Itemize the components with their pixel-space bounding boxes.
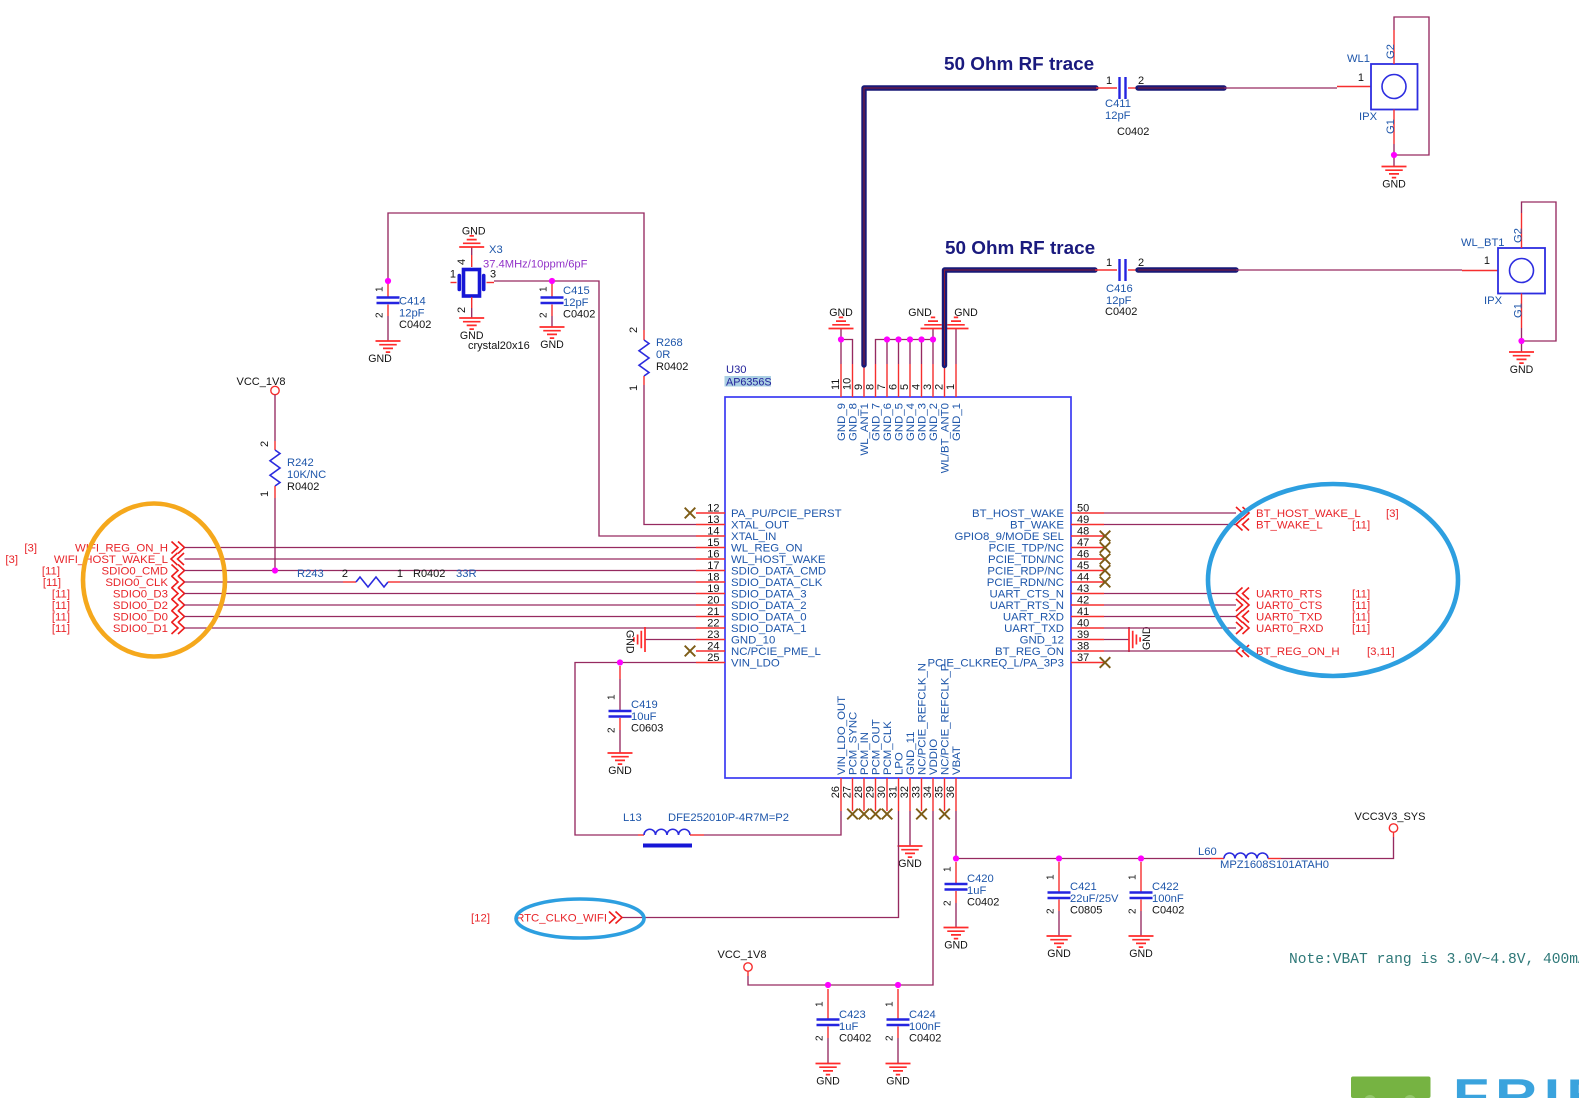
ground C422 <box>1129 936 1154 960</box>
junction crystal pin3 / C415 <box>549 278 555 284</box>
junction R242/SDIO0_CMD <box>272 567 278 573</box>
wire pin1 to GND <box>955 329 957 365</box>
svg-text:11: 11 <box>830 379 842 390</box>
svg-text:1: 1 <box>397 568 403 580</box>
svg-text:39: 39 <box>1077 629 1089 641</box>
U30 pin 31 LPO <box>888 752 906 811</box>
svg-text:1: 1 <box>1106 257 1112 269</box>
svg-text:FRIENDLY: FRIENDLY <box>1453 1070 1579 1098</box>
svg-text:29: 29 <box>865 786 877 798</box>
svg-text:GND: GND <box>368 353 392 365</box>
svg-text:PCIE_RDN/NC: PCIE_RDN/NC <box>987 577 1064 589</box>
svg-text:35: 35 <box>934 786 946 798</box>
svg-text:GND_9: GND_9 <box>836 403 848 441</box>
svg-text:2: 2 <box>1128 908 1139 914</box>
power VCC_1V8 bottom <box>718 949 767 976</box>
wire pin32 GND_11 <box>909 811 911 846</box>
no-connect pin 30 <box>882 809 893 820</box>
off-page connector SDIO0_CMD <box>42 565 185 578</box>
wire BT_WAKE_L <box>1104 524 1236 526</box>
U30 pin 32 GND_11 <box>899 732 917 811</box>
U30 pin 9 WL_ANT1 <box>853 364 871 456</box>
U30 pin 12 PA_PU/PCIE_PERST <box>696 503 842 521</box>
U30 pin 49 BT_WAKE <box>1010 514 1104 532</box>
svg-text:1uF: 1uF <box>839 1021 858 1033</box>
svg-text:C415: C415 <box>563 285 590 297</box>
junction VBAT/C420 <box>953 855 959 861</box>
capacitor C415 12pF <box>539 284 596 321</box>
capacitor C416 12pF <box>1095 257 1144 318</box>
capacitor C419 10uF <box>607 666 664 735</box>
U30 pin 47 PCIE_TDP/NC <box>989 537 1104 555</box>
ground at pin 39 <box>1129 626 1153 652</box>
svg-text:2: 2 <box>885 1035 896 1041</box>
ground below crystal X3 <box>459 318 484 342</box>
U30 pin 5 GND_4 <box>899 364 917 441</box>
svg-text:20: 20 <box>707 595 719 607</box>
U30 pin 2 WL/BT_ANT0 <box>934 364 952 473</box>
U30 pin 7 GND_6 <box>876 364 894 441</box>
wire net VDDIO <box>748 811 933 985</box>
svg-text:2: 2 <box>628 327 640 333</box>
thick RF trace after C416 <box>1138 267 1236 272</box>
wire C415 to GND <box>551 316 553 327</box>
svg-text:G1: G1 <box>1513 303 1525 318</box>
svg-text:1: 1 <box>628 385 640 391</box>
ground WL1 <box>1382 167 1407 191</box>
svg-text:5: 5 <box>899 384 911 390</box>
svg-text:1: 1 <box>607 694 618 700</box>
svg-text:SDIO0_CLK: SDIO0_CLK <box>105 577 168 589</box>
wire net XTAL_OUT <box>388 213 696 525</box>
resistor R243 33R <box>297 568 477 587</box>
logo FriendlyElec <box>1351 1070 1579 1098</box>
svg-text:4: 4 <box>911 384 923 390</box>
svg-text:IPX: IPX <box>1484 295 1503 307</box>
junction WL_BT1 G1 <box>1518 338 1524 344</box>
power VCC3V3_SYS <box>1355 811 1426 837</box>
svg-text:2: 2 <box>1138 257 1144 269</box>
svg-text:PCM_OUT: PCM_OUT <box>871 719 883 775</box>
no-connect pin 47 <box>1100 542 1111 553</box>
no-connect pin 46 <box>1100 554 1111 565</box>
svg-text:[11]: [11] <box>52 600 70 612</box>
svg-text:GND: GND <box>954 307 978 319</box>
capacitor C422 100nF <box>1128 862 1185 917</box>
svg-text:XTAL_IN: XTAL_IN <box>731 531 776 543</box>
wire BT_REG_ON_H <box>1104 650 1236 652</box>
svg-text:PCIE_RDP/NC: PCIE_RDP/NC <box>987 566 1064 578</box>
svg-text:WL/BT_ANT0: WL/BT_ANT0 <box>940 403 952 473</box>
svg-text:9: 9 <box>853 384 865 390</box>
svg-text:GND: GND <box>540 339 564 351</box>
U30 pin 28 PCM_IN <box>853 732 871 811</box>
svg-text:22uF/25V: 22uF/25V <box>1070 893 1119 905</box>
svg-text:GND: GND <box>816 1076 840 1088</box>
svg-text:31: 31 <box>888 786 900 798</box>
off-page connector UART0_RXD <box>1236 622 1370 635</box>
U30 pin 15 WL_REG_ON <box>696 537 803 555</box>
svg-text:1: 1 <box>945 384 957 390</box>
U30 pin 40 UART_TXD <box>1004 618 1104 636</box>
wire UART0_RTS <box>1104 593 1236 595</box>
ground pin 32 <box>898 846 923 870</box>
wire to WL_BT1 <box>1236 269 1462 271</box>
wire net VIN_LDO <box>575 663 696 836</box>
svg-text:SDIO0_D0: SDIO0_D0 <box>113 612 168 624</box>
junction top rail x=910 <box>907 336 913 342</box>
svg-text:G1: G1 <box>1385 119 1397 134</box>
svg-text:MPZ1608S101ATAH0: MPZ1608S101ATAH0 <box>1220 859 1329 871</box>
junction top rail x=898.5 <box>895 336 901 342</box>
junction VDDIO/C424 <box>895 982 901 988</box>
svg-text:SDIO_DATA_1: SDIO_DATA_1 <box>731 623 807 635</box>
svg-text:[11]: [11] <box>1352 623 1370 635</box>
svg-text:GND: GND <box>624 630 636 654</box>
wire GND_12 pin39 <box>1104 639 1129 641</box>
svg-text:WL_REG_ON: WL_REG_ON <box>731 543 803 555</box>
wire C414 to GND <box>387 316 389 341</box>
svg-text:22: 22 <box>707 618 719 630</box>
wire R242 to SDIO0_CMD <box>274 498 276 571</box>
ground C421 <box>1047 936 1072 960</box>
junction top rail x=887 <box>884 336 890 342</box>
svg-text:C419: C419 <box>631 699 658 711</box>
wire L13 to pin26 VIN_LDO_OUT <box>704 811 841 835</box>
off-page connector SDIO0_D3 <box>52 588 185 601</box>
svg-text:R243: R243 <box>297 568 324 580</box>
svg-text:GND: GND <box>1510 364 1534 376</box>
off-page connector SDIO0_D1 <box>52 622 185 635</box>
U30 pin 38 BT_REG_ON <box>995 641 1104 659</box>
svg-text:1: 1 <box>450 269 456 281</box>
svg-text:BT_REG_ON: BT_REG_ON <box>995 646 1064 658</box>
U30 pin 8 GND_7 <box>865 364 883 441</box>
svg-text:[11]: [11] <box>1352 612 1370 624</box>
svg-text:10K/NC: 10K/NC <box>287 469 326 481</box>
svg-text:PCIE_TDP/NC: PCIE_TDP/NC <box>989 543 1064 555</box>
U30 pin 13 XTAL_OUT <box>696 514 789 532</box>
svg-text:2: 2 <box>934 384 946 390</box>
svg-text:BT_REG_ON_H: BT_REG_ON_H <box>1256 646 1340 658</box>
U30 pin 19 SDIO_DATA_3 <box>696 583 807 601</box>
svg-text:VCC_1V8: VCC_1V8 <box>237 376 286 388</box>
U30 pin 44 PCIE_RDN/NC <box>987 572 1104 590</box>
svg-text:100nF: 100nF <box>909 1021 941 1033</box>
svg-text:45: 45 <box>1077 560 1089 572</box>
svg-text:1: 1 <box>815 1001 826 1007</box>
off-page connector WIFI_REG_ON_H <box>24 542 184 555</box>
wire SDIO0_D2 <box>185 604 697 606</box>
connector WL_BT1 IPX <box>1461 213 1545 328</box>
wire net XTAL_IN <box>494 281 696 536</box>
svg-text:49: 49 <box>1077 514 1089 526</box>
svg-text:12: 12 <box>707 503 719 515</box>
wire SDIO0_D0 <box>185 616 697 618</box>
crystal X3 37.4MHz <box>450 244 588 352</box>
no-connect pin 24 <box>685 646 696 657</box>
wire net RTC_CLKO_WIFI to pin31 LPO <box>622 811 899 918</box>
no-connect pin 44 <box>1100 577 1111 588</box>
svg-text:C0805: C0805 <box>1070 905 1102 917</box>
svg-text:GND_4: GND_4 <box>905 403 917 441</box>
svg-text:1: 1 <box>943 866 954 872</box>
svg-text:SDIO_DATA_2: SDIO_DATA_2 <box>731 600 807 612</box>
no-connect pin 12 <box>685 508 696 519</box>
svg-text:2: 2 <box>456 307 468 313</box>
svg-text:UART0_RXD: UART0_RXD <box>1256 623 1324 635</box>
U30 pin 16 WL_HOST_WAKE <box>696 549 826 567</box>
U30 pin 3 GND_2 <box>922 364 940 441</box>
svg-text:[3]: [3] <box>1386 508 1399 520</box>
U30 pin 11 GND_9 <box>830 364 848 441</box>
U30 pin 50 BT_HOST_WAKE <box>972 503 1104 521</box>
off-page connector UART0_CTS <box>1236 599 1370 612</box>
svg-text:BT_HOST_WAKE: BT_HOST_WAKE <box>972 508 1064 520</box>
svg-text:2: 2 <box>342 568 348 580</box>
thick RF trace WL_ANT1 <box>864 88 1096 365</box>
svg-text:24: 24 <box>707 641 719 653</box>
svg-text:NC/PCIE_REFCLK_N: NC/PCIE_REFCLK_N <box>917 663 929 775</box>
svg-text:19: 19 <box>707 583 719 595</box>
capacitor C424 100nF <box>885 989 942 1045</box>
svg-text:18: 18 <box>707 572 719 584</box>
svg-text:R0402: R0402 <box>413 568 445 580</box>
svg-text:21: 21 <box>707 606 719 618</box>
svg-text:GND_2: GND_2 <box>928 403 940 441</box>
U30 pin 18 SDIO_DATA_CLK <box>696 572 823 590</box>
wire UART0_RXD <box>1104 627 1236 629</box>
off-page connector SDIO0_D2 <box>52 599 185 612</box>
svg-text:23: 23 <box>707 629 719 641</box>
U30 pin 10 GND_8 <box>842 364 860 441</box>
wire C420 to GND <box>955 903 957 928</box>
svg-text:Note:VBAT rang is 3.0V~4.8V, 4: Note:VBAT rang is 3.0V~4.8V, 400mA <box>1289 952 1579 968</box>
svg-text:PA_PU/PCIE_PERST: PA_PU/PCIE_PERST <box>731 508 842 520</box>
svg-text:36: 36 <box>945 786 957 798</box>
svg-text:GND: GND <box>829 307 853 319</box>
svg-text:1: 1 <box>1106 75 1112 87</box>
svg-text:PCIE_TDN/NC: PCIE_TDN/NC <box>988 554 1064 566</box>
svg-text:30: 30 <box>876 786 888 798</box>
svg-text:[3]: [3] <box>5 554 18 566</box>
wire to WL1 <box>1224 87 1337 89</box>
off-page connector BT_REG_ON_H <box>1236 645 1395 658</box>
svg-text:GND_3: GND_3 <box>917 403 929 441</box>
svg-text:GND_7: GND_7 <box>871 403 883 441</box>
U30 pin 35 NC/PCIE_REFCLK_P <box>934 664 952 811</box>
U30 pin 22 SDIO_DATA_1 <box>696 618 807 636</box>
svg-text:C421: C421 <box>1070 881 1097 893</box>
svg-text:10uF: 10uF <box>631 711 657 723</box>
svg-text:BT_WAKE_L: BT_WAKE_L <box>1256 520 1323 532</box>
off-page connector UART0_TXD <box>1236 611 1370 624</box>
ground top pin 1 <box>944 307 979 329</box>
ground at pin 23 <box>624 627 646 654</box>
U30 pin 26 VIN_LDO_OUT <box>830 696 848 811</box>
wire C424 to GND <box>897 1038 899 1064</box>
svg-text:33R: 33R <box>456 568 477 580</box>
ground C415 <box>540 327 565 351</box>
svg-text:WL_BT1: WL_BT1 <box>1461 237 1505 249</box>
power VCC_1V8 top <box>237 376 286 395</box>
wire SDIO0_D1 <box>185 627 697 629</box>
U30 pin 27 PCM_SYNC <box>842 712 860 811</box>
svg-text:[3]: [3] <box>24 543 37 555</box>
wire WIFI_HOST_WAKE_L <box>185 558 697 560</box>
svg-text:C414: C414 <box>399 296 426 308</box>
svg-text:G2: G2 <box>1513 228 1525 243</box>
off-page connector SDIO0_CLK <box>43 576 185 589</box>
thick RF trace WL/BT_ANT0 <box>945 270 1096 366</box>
svg-text:XTAL_OUT: XTAL_OUT <box>731 520 789 532</box>
resistor R242 10K/NC <box>259 441 326 498</box>
wire pin11 to GND rail <box>840 329 842 365</box>
svg-text:[11]: [11] <box>1352 520 1370 532</box>
U30 pin 6 GND_5 <box>888 364 906 441</box>
svg-text:BT_WAKE: BT_WAKE <box>1010 520 1064 532</box>
inductor L60 MPZ1608 <box>1198 846 1329 871</box>
no-connect pin 35 <box>939 809 950 820</box>
U30 pin 29 PCM_OUT <box>865 719 883 811</box>
svg-text:[11]: [11] <box>43 577 61 589</box>
svg-text:1: 1 <box>259 491 271 497</box>
svg-text:12pF: 12pF <box>563 297 589 309</box>
U30 pin 17 SDIO_DATA_CMD <box>696 560 826 578</box>
junction pins 11/10 <box>838 336 844 342</box>
svg-text:C411: C411 <box>1105 98 1131 110</box>
svg-text:C422: C422 <box>1152 881 1179 893</box>
U30 pin 20 SDIO_DATA_2 <box>696 595 807 613</box>
wire UART0_TXD <box>1104 616 1236 618</box>
svg-text:NC/PCIE_REFCLK_P: NC/PCIE_REFCLK_P <box>940 664 952 775</box>
svg-text:SDIO_DATA_CMD: SDIO_DATA_CMD <box>731 566 826 578</box>
svg-text:C420: C420 <box>967 873 994 885</box>
svg-text:14: 14 <box>707 526 719 538</box>
no-connect pin 33 <box>916 809 927 820</box>
off-page connector BT_HOST_WAKE_L <box>1236 507 1399 520</box>
wire VCC_1V8 to R242 <box>274 395 276 441</box>
capacitor C420 1uF <box>943 862 1000 909</box>
svg-text:VBAT: VBAT <box>951 746 963 775</box>
U30 pin 37 PCIE_CLKREQ_L/PA_3P3 <box>927 652 1104 670</box>
svg-text:R0402: R0402 <box>656 361 688 373</box>
svg-text:C424: C424 <box>909 1009 936 1021</box>
svg-text:C0402: C0402 <box>1105 306 1137 318</box>
wire SDIO0_D3 <box>185 593 697 595</box>
thick RF trace after C411 <box>1138 85 1224 90</box>
svg-text:10: 10 <box>842 378 854 390</box>
svg-text:WIFI_HOST_WAKE_L: WIFI_HOST_WAKE_L <box>54 554 168 566</box>
U30 pin 4 GND_3 <box>911 364 929 441</box>
op-amp U30 chip body AP6356S <box>725 364 1072 778</box>
wire WL_BT1 ground loop <box>1522 202 1557 352</box>
U30 pin 33 NC/PCIE_REFCLK_N <box>911 663 929 811</box>
svg-text:C0402: C0402 <box>563 309 595 321</box>
off-page connector BT_WAKE_L <box>1236 519 1370 532</box>
svg-text:SDIO0_CMD: SDIO0_CMD <box>102 566 168 578</box>
svg-text:38: 38 <box>1077 641 1089 653</box>
svg-text:SDIO0_D1: SDIO0_D1 <box>113 623 168 635</box>
annotation ellipse UART group <box>1208 484 1458 676</box>
svg-text:C416: C416 <box>1106 283 1133 295</box>
wire UART0_CTS <box>1104 604 1236 606</box>
svg-text:G2: G2 <box>1385 44 1397 59</box>
junction top rail x=921.5 <box>918 336 924 342</box>
svg-text:1uF: 1uF <box>967 885 986 897</box>
svg-text:X3: X3 <box>489 244 503 256</box>
svg-text:2: 2 <box>815 1035 826 1041</box>
junction VDDIO/C423 <box>825 982 831 988</box>
junction VIN_LDO / C419 <box>617 659 623 665</box>
svg-text:12pF: 12pF <box>399 308 425 320</box>
svg-text:12pF: 12pF <box>1105 110 1131 122</box>
svg-text:47: 47 <box>1077 537 1089 549</box>
svg-text:GND: GND <box>460 330 484 342</box>
svg-text:8: 8 <box>865 384 877 390</box>
U30 pin 23 GND_10 <box>696 629 775 647</box>
off-page connector SDIO0_D0 <box>52 611 185 624</box>
U30 pin 48 GPIO8_9/MODE SEL <box>954 526 1104 544</box>
svg-text:SDIO_DATA_CLK: SDIO_DATA_CLK <box>731 577 823 589</box>
svg-text:C0402: C0402 <box>909 1033 941 1045</box>
wire GND_10 pin23 <box>645 639 696 641</box>
svg-text:L60: L60 <box>1198 846 1217 858</box>
ground top pins 11/10 <box>829 307 854 329</box>
annotation circle SDIO group <box>83 504 225 657</box>
svg-text:50 Ohm RF trace: 50 Ohm RF trace <box>945 238 1095 259</box>
wire crystal pin2 to GND <box>471 308 473 318</box>
off-page connector UART0_RTS <box>1236 588 1370 601</box>
ground C420 <box>944 928 969 952</box>
wire C419 to GND <box>619 730 621 753</box>
svg-text:1: 1 <box>375 286 386 292</box>
svg-text:2: 2 <box>539 312 550 318</box>
svg-text:C0402: C0402 <box>839 1033 871 1045</box>
svg-text:PCM_CLK: PCM_CLK <box>882 721 894 775</box>
svg-text:AP6356S: AP6356S <box>726 377 772 389</box>
svg-text:50 Ohm RF trace: 50 Ohm RF trace <box>944 54 1094 75</box>
svg-text:C0402: C0402 <box>1152 905 1184 917</box>
svg-text:1: 1 <box>885 1001 896 1007</box>
junction WL1 G1 <box>1391 152 1397 158</box>
svg-text:16: 16 <box>707 549 719 561</box>
no-connect pin 28 <box>859 809 870 820</box>
svg-text:C423: C423 <box>839 1009 866 1021</box>
ground above crystal X3 <box>459 225 486 247</box>
wire C423 to GND <box>827 1038 829 1064</box>
capacitor C414 12pF <box>375 284 432 331</box>
ground C424 <box>886 1064 911 1088</box>
no-connect pin 48 <box>1100 531 1111 542</box>
off-page connector RTC_CLKO_WIFI <box>471 912 622 925</box>
svg-text:4: 4 <box>456 259 468 265</box>
svg-text:17: 17 <box>707 560 719 572</box>
U30 pin 21 SDIO_DATA_0 <box>696 606 807 624</box>
svg-text:2: 2 <box>943 900 954 906</box>
svg-text:UART_RTS_N: UART_RTS_N <box>990 600 1064 612</box>
svg-text:46: 46 <box>1077 549 1089 561</box>
svg-text:100nF: 100nF <box>1152 893 1184 905</box>
svg-text:R0402: R0402 <box>287 481 319 493</box>
svg-text:1: 1 <box>1046 874 1057 880</box>
svg-text:VDDIO: VDDIO <box>928 739 940 775</box>
svg-text:2: 2 <box>1138 75 1144 87</box>
junction crystal pin1 / C414 <box>385 278 391 284</box>
wire net VBAT rail <box>956 811 1394 859</box>
wire WIFI_REG_ON_H <box>185 547 697 549</box>
svg-text:2: 2 <box>1046 908 1057 914</box>
